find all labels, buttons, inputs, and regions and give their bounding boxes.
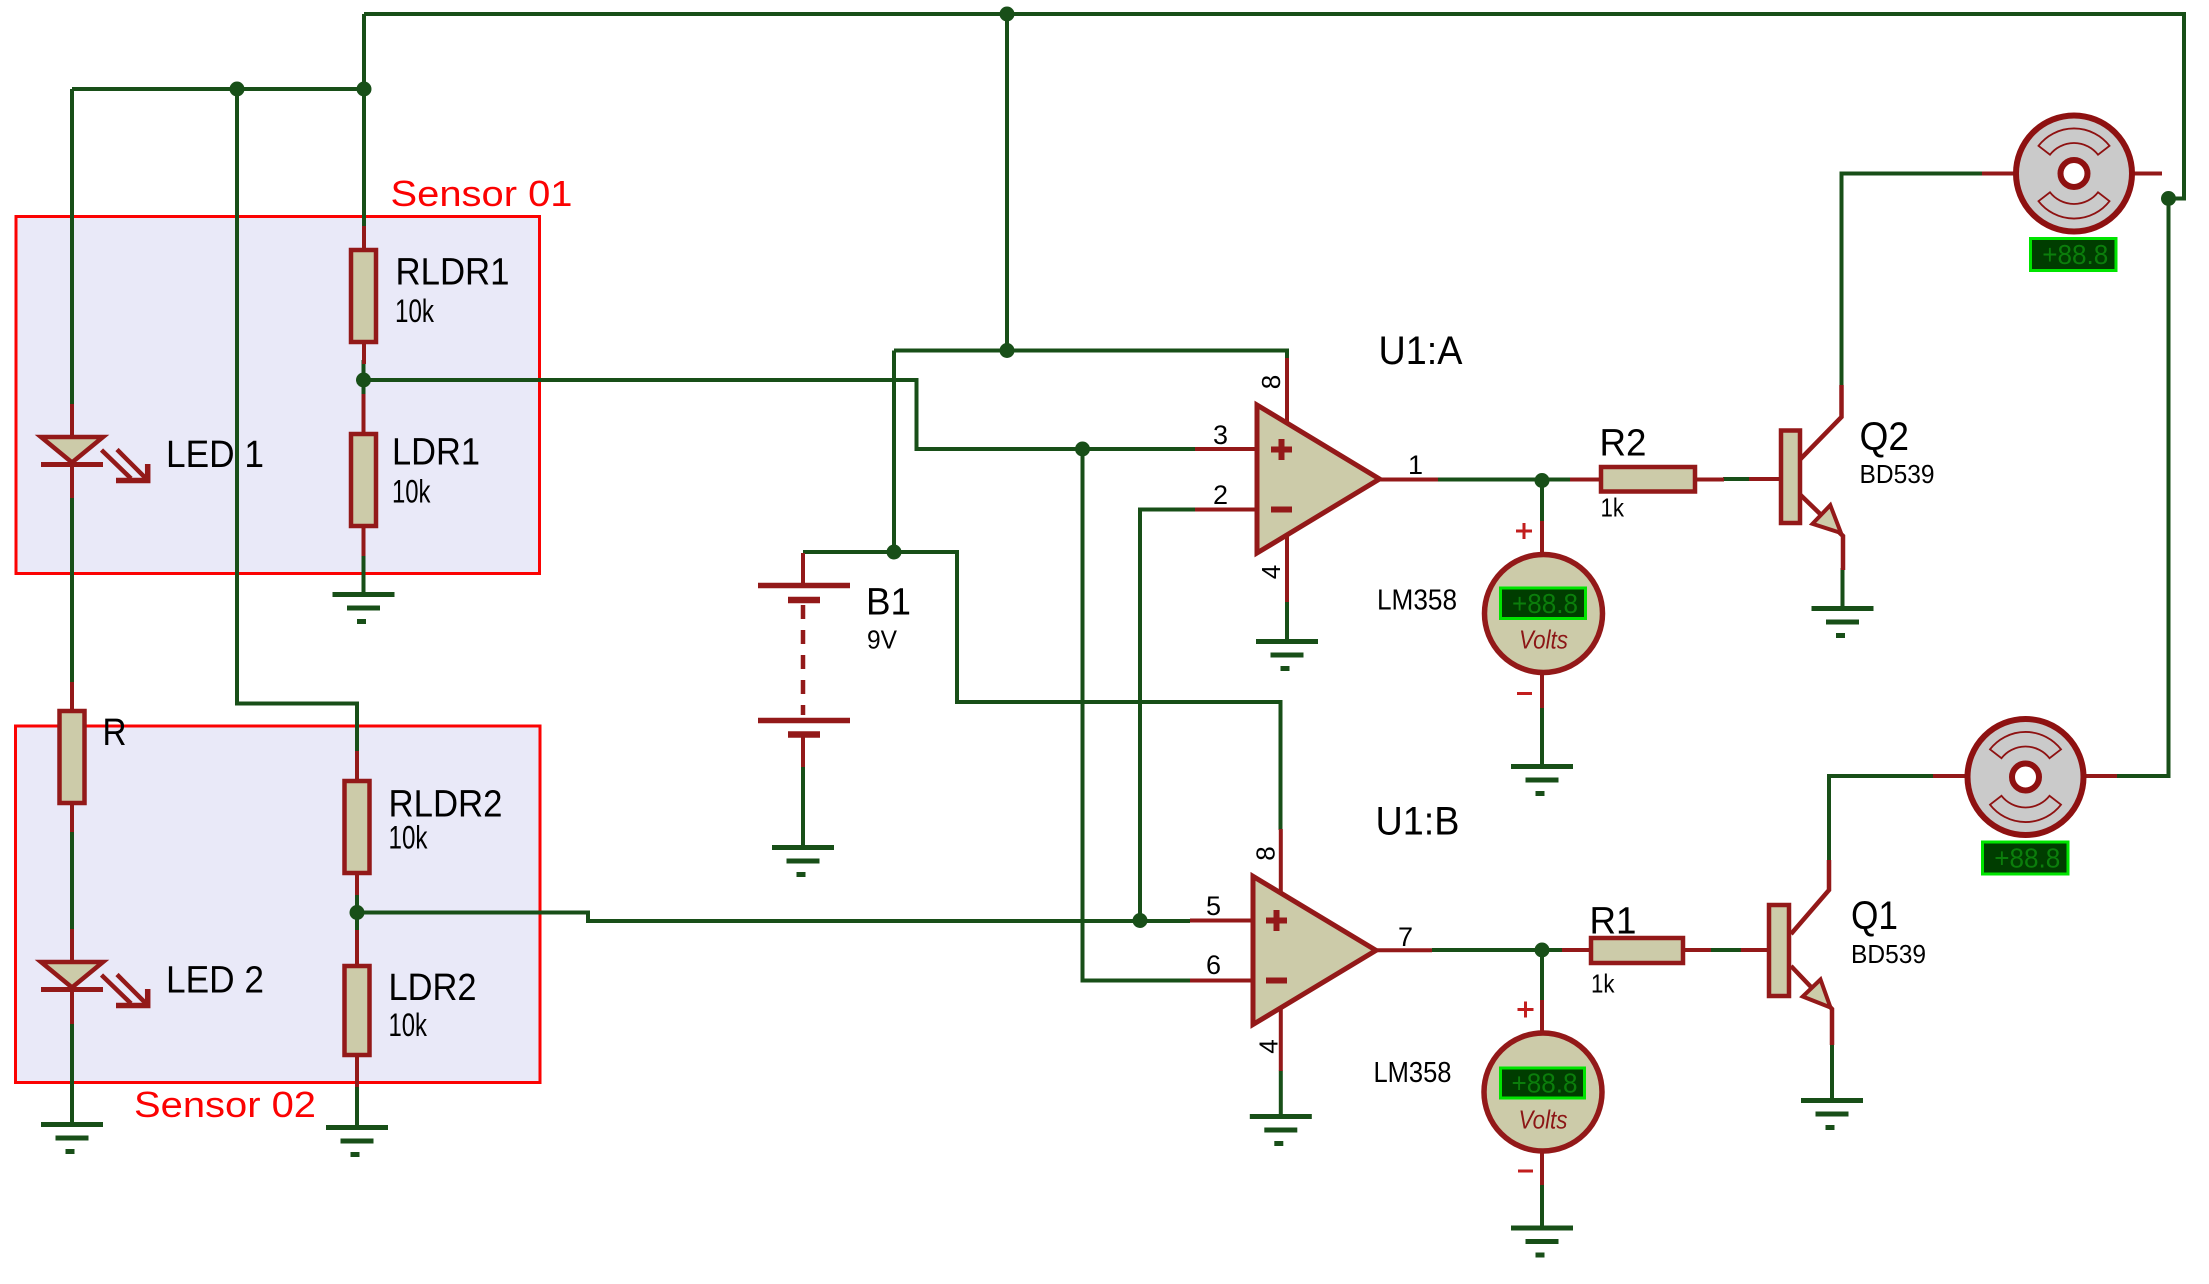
- resistor R: [60, 711, 85, 803]
- svg-text:LED 1: LED 1: [166, 434, 264, 476]
- wire +9V row to battery: [892, 351, 896, 553]
- pin stub VM2 minus: [1540, 1151, 1544, 1185]
- junction pin3 wire x=1082.5: [1075, 442, 1090, 457]
- junction y=89 x=364: [357, 82, 372, 97]
- junction battery+ node: [887, 545, 902, 560]
- pin stub R bottom: [70, 801, 74, 832]
- display +88.8 of voltmeter VM1: [1501, 588, 1586, 619]
- pin stub LED1 anode: [70, 404, 74, 437]
- junction sensor1 divider node: [356, 373, 371, 388]
- voltmeter VM2: [1484, 1033, 1602, 1151]
- svg-text:1: 1: [1408, 450, 1423, 480]
- LED LED1: [41, 437, 148, 481]
- svg-text:Sensor 02: Sensor 02: [134, 1084, 316, 1125]
- ground (U1:B pin4): [1250, 1117, 1312, 1144]
- pin stub U1:A pin3: [1195, 447, 1256, 451]
- sensor block box Sensor 02: [16, 726, 541, 1083]
- svg-text:R2: R2: [1600, 423, 1647, 465]
- wire sensor1 node to U1:A pin3: [364, 380, 1196, 449]
- resistor R2: [1601, 467, 1695, 492]
- minus mark U1:A: [1271, 507, 1292, 513]
- wire R2 to Q2 base: [1723, 477, 1750, 481]
- wire LED supply row y=89: [72, 87, 364, 91]
- junction motor rail x=2168.5: [2161, 191, 2176, 206]
- plus mark VM2: [1518, 1002, 1534, 1018]
- svg-text:U1:A: U1:A: [1379, 329, 1463, 373]
- junction U1:A output node: [1535, 473, 1550, 488]
- pin stub LED1 cathode: [70, 466, 74, 498]
- wire R to LED2 anode: [70, 830, 74, 930]
- pin stub LDR2 top: [355, 930, 359, 968]
- pin stub LDR1 top: [362, 394, 366, 436]
- svg-text:8: 8: [1251, 846, 1281, 860]
- wire output1 branch to voltmeter VM1: [1540, 480, 1544, 523]
- pin stub U1:A pin4: [1285, 534, 1289, 602]
- pin stub U1:A pin8: [1285, 358, 1289, 424]
- voltmeter VM1: [1485, 555, 1603, 673]
- wire sensor1 node branch to U1:B pin6: [1083, 449, 1191, 981]
- ground (LDR1): [333, 595, 395, 622]
- svg-text:BD539: BD539: [1851, 939, 1926, 969]
- pin stub U1:B pin6: [1190, 979, 1253, 983]
- svg-text:Sensor 01: Sensor 01: [391, 173, 573, 214]
- op-amp U1:B: [1253, 876, 1376, 1024]
- svg-text:LDR2: LDR2: [389, 967, 477, 1009]
- wire +9V top rail to motors: [364, 14, 2184, 776]
- svg-text:B1: B1: [866, 582, 911, 624]
- wire U1:B output node: [1432, 948, 1563, 952]
- motor M2: [1968, 719, 2084, 835]
- svg-text:9V: 9V: [867, 625, 898, 655]
- resistor RLDR2: [345, 781, 370, 873]
- pin stub R1 left: [1562, 948, 1591, 952]
- wire +9V row to U1:A pin8: [894, 351, 1287, 361]
- pin stub U1:B pin8: [1279, 829, 1283, 893]
- pin stub battery bottom: [801, 735, 805, 767]
- ground (LDR2): [326, 1128, 388, 1155]
- wire Q2 emitter to ground: [1841, 568, 1845, 606]
- pin stub motor M1 right: [2132, 172, 2162, 176]
- svg-text:+88.8: +88.8: [1512, 588, 1578, 619]
- resistor LDR2: [345, 966, 370, 1055]
- motor M1: [2016, 116, 2132, 232]
- wire output7 branch to voltmeter VM2: [1540, 950, 1544, 1001]
- resistor RLDR1: [351, 250, 376, 342]
- svg-text:10k: 10k: [395, 293, 435, 329]
- svg-text:4: 4: [1254, 1039, 1284, 1053]
- plus mark U1:B: [1266, 910, 1287, 931]
- wire R1 to Q1 base: [1710, 948, 1742, 952]
- pin stub motor M2 right: [2084, 774, 2117, 778]
- svg-text:6: 6: [1206, 950, 1221, 980]
- pin stub U1:B pin7 output: [1374, 948, 1432, 952]
- svg-text:LM358: LM358: [1374, 1057, 1452, 1089]
- op-amp U1:A: [1257, 405, 1380, 553]
- svg-text:Volts: Volts: [1519, 1105, 1568, 1135]
- pin stub battery top: [801, 553, 805, 586]
- pin stub VM1 plus: [1540, 521, 1544, 554]
- wire top rail drop at x=364: [362, 14, 366, 226]
- wire sensor2 divider node: [355, 893, 359, 932]
- svg-text:10k: 10k: [389, 820, 429, 856]
- wire battery- to ground: [801, 765, 805, 845]
- svg-text:Q1: Q1: [1851, 894, 1898, 938]
- ground (VM2): [1511, 1228, 1573, 1255]
- svg-text:1k: 1k: [1601, 493, 1625, 523]
- minus mark VM2: [1518, 1170, 1533, 1173]
- transistor Q1: [1769, 860, 1832, 1045]
- pin stub RLDR1 top: [362, 226, 366, 252]
- resistor R1: [1591, 938, 1683, 963]
- display +88.8 of voltmeter VM2: [1501, 1068, 1585, 1099]
- svg-text:10k: 10k: [392, 474, 431, 510]
- plus mark VM1: [1516, 523, 1532, 539]
- svg-text:R1: R1: [1590, 901, 1637, 943]
- pin stub Q1 base: [1741, 948, 1769, 952]
- ground (U1:A pin4): [1256, 642, 1318, 669]
- pin stub LED2 anode: [70, 929, 74, 962]
- svg-text:+88.8: +88.8: [2042, 239, 2108, 270]
- wire sensor2 node to U1:B pin5: [357, 913, 1190, 922]
- wire VM2 to ground: [1540, 1184, 1544, 1226]
- pin stub LED2 cathode: [70, 991, 74, 1024]
- pin stub R1 right: [1683, 948, 1711, 952]
- svg-text:U1:B: U1:B: [1376, 800, 1460, 844]
- junction sensor2 divider node: [350, 905, 365, 920]
- svg-text:8: 8: [1256, 375, 1286, 389]
- minus mark VM1: [1517, 692, 1532, 695]
- wire U1:B pin4 to ground: [1279, 1071, 1283, 1115]
- pin stub RLDR1 bottom: [362, 342, 366, 364]
- svg-text:Volts: Volts: [1519, 625, 1568, 655]
- junction y=89 x=237: [230, 82, 245, 97]
- pin stub VM1 minus: [1540, 672, 1544, 708]
- pin stub U1:B pin4: [1279, 1007, 1283, 1071]
- svg-text:2: 2: [1213, 480, 1228, 510]
- pin stub R2 right: [1695, 478, 1724, 482]
- sensor block box Sensor 01: [16, 217, 540, 574]
- wire Q1 collector to motor M2: [1829, 776, 1934, 862]
- wire battery+ to U1:B pin8: [803, 552, 1281, 830]
- wire U1:B pin5 branch to U1:A pin2: [1140, 510, 1195, 921]
- svg-text:R: R: [103, 712, 127, 754]
- battery B1: [758, 586, 850, 735]
- junction U1:B output node: [1535, 943, 1550, 958]
- pin stub R top: [70, 682, 74, 712]
- wire LDR2 to ground: [355, 1085, 359, 1125]
- wire sensor1 divider node: [362, 360, 366, 398]
- plus mark U1:A: [1271, 439, 1292, 460]
- pin stub U1:B pin5: [1190, 919, 1253, 923]
- wire LED2 cathode to ground: [70, 1022, 74, 1122]
- pin stub RLDR2 top: [355, 751, 359, 782]
- wire Q2 collector to motor M1: [1842, 174, 1984, 388]
- svg-text:+88.8: +88.8: [1512, 1068, 1578, 1099]
- junction top rail x=1007: [1000, 7, 1015, 22]
- svg-text:Q2: Q2: [1860, 415, 1910, 459]
- display +88.8 of motor M1: [2031, 239, 2117, 271]
- wire VM1 to ground: [1540, 707, 1544, 764]
- svg-text:10k: 10k: [389, 1007, 428, 1043]
- ground (VM1): [1511, 767, 1573, 794]
- svg-text:BD539: BD539: [1860, 459, 1935, 489]
- pin stub LDR2 bottom: [355, 1054, 359, 1087]
- ground (LED2): [41, 1125, 103, 1152]
- display +88.8 of motor M2: [1983, 842, 2069, 874]
- pin stub Q2 base: [1749, 477, 1781, 481]
- svg-text:+88.8: +88.8: [1994, 843, 2060, 874]
- wire LED1 cathode to R: [70, 496, 74, 682]
- wire Q1 emitter to ground: [1830, 1043, 1834, 1098]
- pin stub R2 left: [1570, 478, 1601, 482]
- svg-text:3: 3: [1213, 420, 1228, 450]
- minus mark U1:B: [1266, 978, 1287, 984]
- pin stub U1:A pin2: [1195, 508, 1256, 512]
- junction pin5 wire x=1140: [1133, 913, 1148, 928]
- ground (Q1 emitter): [1801, 1101, 1863, 1128]
- pin stub motor M1 left: [1982, 172, 2016, 176]
- wire x=237 drop to RLDR2: [237, 89, 357, 753]
- svg-text:5: 5: [1206, 891, 1221, 921]
- wire U1:A pin4 to ground: [1285, 601, 1289, 639]
- pin stub LDR1 bottom: [362, 525, 366, 556]
- wire LDR1 to ground: [362, 554, 366, 592]
- svg-text:LED 2: LED 2: [166, 960, 264, 1002]
- resistor LDR1: [351, 434, 376, 526]
- wire U1:A output node: [1438, 478, 1571, 482]
- svg-text:LDR1: LDR1: [392, 432, 480, 474]
- pin stub RLDR2 bottom: [355, 872, 359, 895]
- svg-text:4: 4: [1256, 565, 1286, 579]
- wire LED1 anode drop x=72: [70, 89, 74, 404]
- ground (Q2 emitter): [1812, 609, 1874, 636]
- transistor Q2: [1781, 385, 1843, 570]
- svg-text:LM358: LM358: [1377, 585, 1457, 617]
- svg-text:RLDR1: RLDR1: [396, 252, 510, 294]
- pin stub U1:A pin1 output: [1378, 478, 1438, 482]
- junction +9V row x=1007: [1000, 343, 1015, 358]
- svg-text:7: 7: [1398, 922, 1413, 952]
- pin stub VM2 plus: [1540, 1000, 1544, 1033]
- ground (battery B1): [772, 848, 834, 875]
- svg-text:1k: 1k: [1591, 969, 1615, 999]
- pin stub motor M2 left: [1933, 774, 1967, 778]
- wire top rail drop at x=1007: [1005, 14, 1009, 351]
- LED LED2: [41, 962, 148, 1006]
